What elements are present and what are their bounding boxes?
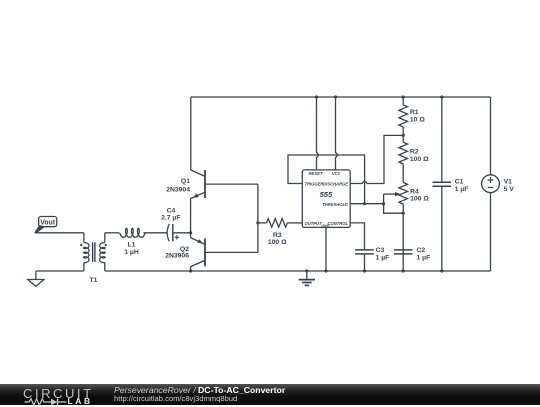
svg-text:5 V: 5 V <box>504 186 515 193</box>
svg-text:100 Ω: 100 Ω <box>410 156 429 163</box>
svg-text:C3: C3 <box>376 247 385 254</box>
svg-text:CONTROL: CONTROL <box>328 221 349 226</box>
svg-text:C4: C4 <box>167 207 176 214</box>
svg-text:Q1: Q1 <box>181 178 190 185</box>
svg-text:THRESHOLD: THRESHOLD <box>322 202 348 207</box>
svg-text:L1: L1 <box>128 241 136 248</box>
svg-text:DISCHARGE: DISCHARGE <box>323 182 348 187</box>
svg-text:2N3906: 2N3906 <box>165 253 189 260</box>
svg-text:Vout: Vout <box>40 220 56 227</box>
svg-text:OUTPUT: OUTPUT <box>305 221 322 226</box>
svg-text:2N3904: 2N3904 <box>166 187 190 194</box>
svg-text:R2: R2 <box>410 149 419 156</box>
svg-text:V1: V1 <box>504 178 513 185</box>
svg-text:555: 555 <box>320 190 333 199</box>
svg-text:1 µF: 1 µF <box>455 186 469 193</box>
svg-text:R1: R1 <box>410 109 419 116</box>
svg-text:1 µH: 1 µH <box>124 249 139 256</box>
svg-text:R4: R4 <box>410 188 419 195</box>
svg-text:TRIGGER: TRIGGER <box>305 182 324 187</box>
svg-text:100 Ω: 100 Ω <box>410 196 429 203</box>
svg-text:VCC: VCC <box>332 171 342 176</box>
svg-text:2.7 µF: 2.7 µF <box>161 215 180 222</box>
svg-text:T1: T1 <box>90 277 98 284</box>
svg-text:RESET: RESET <box>309 171 323 176</box>
svg-text:C2: C2 <box>417 247 426 254</box>
svg-text:10 Ω: 10 Ω <box>410 116 425 123</box>
svg-text:1 µF: 1 µF <box>376 254 390 261</box>
svg-text:C1: C1 <box>455 178 464 185</box>
svg-text:1 µF: 1 µF <box>417 254 431 261</box>
svg-text:R3: R3 <box>273 232 282 239</box>
svg-text:100 Ω: 100 Ω <box>268 239 287 246</box>
